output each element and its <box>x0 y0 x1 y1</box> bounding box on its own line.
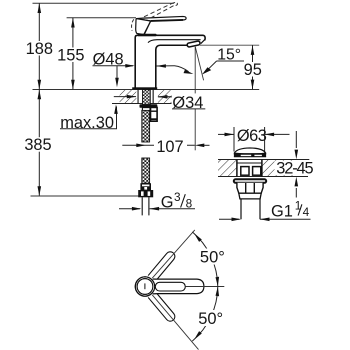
dimension 107 <box>122 138 209 156</box>
diameter 34 label <box>158 93 205 112</box>
lever raised position (dashed) upper line <box>144 4 172 17</box>
label G 3/8 <box>119 190 195 212</box>
flexible hose upper segment <box>142 110 150 142</box>
waste deck bottom line <box>218 176 308 178</box>
lever blade underside accent <box>151 20 183 21</box>
label 50 deg lower <box>195 310 225 328</box>
spout underside and body right edge <box>156 45 189 87</box>
waste washer <box>234 179 266 183</box>
15 degree slant line <box>195 47 203 81</box>
center mark <box>144 283 146 289</box>
G 3/8 thread tail <box>142 197 149 215</box>
dimension 155 <box>57 18 85 90</box>
svg-text:95: 95 <box>244 61 262 79</box>
swivel arc 100 deg <box>192 232 218 341</box>
lever knuckle inner edge <box>144 21 151 34</box>
lever blade <box>136 16 186 21</box>
threaded shank rod <box>143 90 151 105</box>
hose end nut <box>138 190 153 197</box>
svg-text:G: G <box>161 193 174 211</box>
50 deg upper centerline <box>152 230 195 278</box>
check valve fitting <box>151 107 158 121</box>
waste body in deck <box>237 160 262 177</box>
flexible hose lower segment <box>142 158 150 183</box>
diameter 48 right arrow <box>156 64 174 68</box>
extension line top of body (155 ref) <box>67 17 136 19</box>
label 32-45 <box>275 131 315 198</box>
aerator <box>187 41 201 48</box>
lever raised tip curl (dashed) <box>172 2 178 5</box>
svg-text:50°: 50° <box>200 248 225 266</box>
lever raised position (dashed) lower line <box>151 5 175 18</box>
main lever outline <box>153 279 204 294</box>
handle plan view: body circle outer <box>135 277 154 296</box>
waste deck top line <box>218 159 309 161</box>
arc arrowhead upper end <box>194 233 202 242</box>
dimension 188 <box>26 3 54 89</box>
swivel arc with arrow <box>175 66 194 74</box>
deck cross-section hatched left <box>120 90 137 103</box>
rotated lever +50 <box>148 250 177 282</box>
svg-text:155: 155 <box>57 46 84 64</box>
circle re-stroke <box>135 277 154 296</box>
main lever inner detail <box>155 282 185 291</box>
svg-text:4: 4 <box>303 205 310 219</box>
spout end face <box>201 40 205 44</box>
vertical reference line from spout <box>194 47 196 151</box>
waste tailpipe <box>241 199 260 219</box>
hole dimension arrows (Ø34 hole) <box>114 95 173 99</box>
mounting nut <box>140 104 158 108</box>
pop-up waste: diameter 63 dimension <box>218 127 290 152</box>
deck bottom line <box>112 103 172 105</box>
faucet body outline <box>135 35 205 87</box>
svg-text:188: 188 <box>26 40 53 58</box>
svg-text:50°: 50° <box>198 310 223 328</box>
plug lip band <box>234 153 266 156</box>
svg-text:32-45: 32-45 <box>276 159 313 177</box>
mounting shank tube <box>138 90 153 104</box>
pop-up waste plug dome (lens) <box>234 148 265 154</box>
knuckle raised outline (dashed) <box>132 19 134 30</box>
hose crimp collar <box>142 108 150 111</box>
label max.30 <box>60 104 118 132</box>
diameter 48 label <box>93 51 135 88</box>
label G 1 1/4 <box>219 198 311 221</box>
extension line top of lever (188 ref) <box>33 2 175 4</box>
arc arrowheads at centerline <box>216 277 220 287</box>
base flange <box>132 87 157 89</box>
extension line hose end (385 ref) <box>31 195 140 197</box>
horizontal centerline <box>186 286 225 288</box>
svg-text:107: 107 <box>156 138 183 156</box>
label 15 deg <box>202 47 244 75</box>
arc arrowhead lower end <box>194 331 202 340</box>
svg-text:Ø63: Ø63 <box>237 127 267 145</box>
hose end fitting upper <box>140 183 151 190</box>
deck cross-section hatched right <box>158 90 172 103</box>
50 deg lower centerline <box>152 295 198 350</box>
dimension 95 <box>200 45 262 89</box>
svg-text:8: 8 <box>186 197 193 211</box>
svg-text:3: 3 <box>174 190 181 204</box>
waste deck hatched left <box>218 160 237 177</box>
dimension 385 <box>24 90 53 197</box>
waste hex nut <box>237 183 263 193</box>
lever knuckle <box>136 19 151 35</box>
deck surface line <box>33 89 260 91</box>
rotated lever -50 <box>148 292 177 324</box>
label 50 deg upper <box>197 248 227 266</box>
svg-text:385: 385 <box>24 136 51 154</box>
waste deck hatched right <box>262 160 296 177</box>
body circle inner <box>137 279 153 295</box>
waste reducer collar <box>239 193 261 199</box>
knuckle base cap <box>137 34 156 37</box>
spout second top line <box>148 40 201 43</box>
svg-text:G1: G1 <box>271 203 293 221</box>
